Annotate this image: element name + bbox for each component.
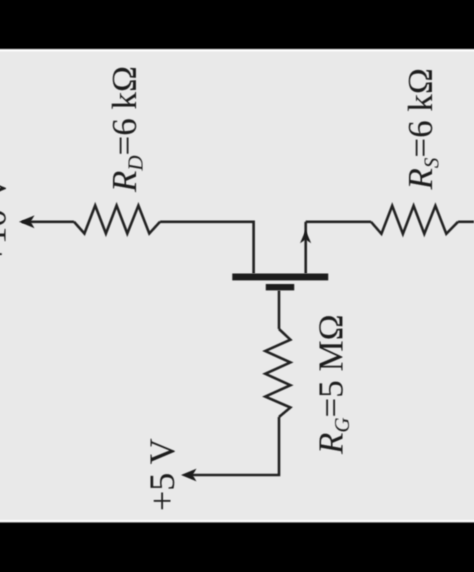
transistor Q1 gate lead <box>278 290 281 329</box>
svg-text:+10 V: +10 V <box>0 176 14 264</box>
arrowhead: +5V supply (points left) <box>181 469 197 482</box>
wire: source corner to R_S <box>306 221 371 224</box>
wire: R_S to right edge <box>458 221 474 224</box>
arrowhead: source terminal (points up) <box>300 230 311 243</box>
wire: R_G down and left to +5V <box>190 417 279 475</box>
label R_S = 6 kOhm <box>401 68 444 190</box>
wire: R_D to drain, drain lead down <box>160 222 254 274</box>
svg-text:RG=5 MΩ: RG=5 MΩ <box>312 314 355 455</box>
label +10 V (clipped at left edge) <box>0 176 14 264</box>
arrowhead: +10V supply (points left) <box>19 215 35 228</box>
wire: +10V supply lead to R_D <box>22 221 74 224</box>
resistor R_S (6 kOhm zigzag) <box>371 206 458 234</box>
transistor Q1 channel bar <box>232 274 328 281</box>
svg-text:+5 V: +5 V <box>142 438 182 511</box>
resistor R_G (5 MOhm zigzag, vertical) <box>265 329 290 417</box>
svg-text:RS=6 kΩ: RS=6 kΩ <box>401 68 444 190</box>
svg-text:RD=6 kΩ: RD=6 kΩ <box>105 66 148 193</box>
transistor Q1 gate bar <box>266 284 294 290</box>
transistor Q1 source lead with wire <box>304 222 307 274</box>
label +5 V <box>142 438 182 511</box>
label R_D = 6 kOhm <box>105 66 148 193</box>
label R_G = 5 MOhm <box>312 314 355 455</box>
resistor R_D (6 kOhm zigzag) <box>74 206 160 234</box>
